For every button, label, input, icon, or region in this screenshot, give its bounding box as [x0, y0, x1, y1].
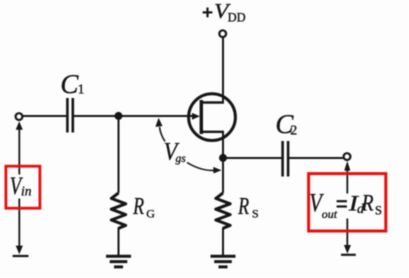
svg-text:gs: gs — [176, 153, 187, 165]
svg-text:S: S — [252, 206, 259, 220]
svg-text:S: S — [375, 204, 382, 218]
svg-text:DD: DD — [228, 11, 246, 25]
svg-text:out: out — [322, 207, 338, 221]
svg-text:1: 1 — [78, 83, 85, 98]
svg-text:R: R — [361, 190, 374, 216]
svg-text:G: G — [146, 207, 155, 221]
svg-text:R: R — [237, 193, 249, 220]
svg-text:in: in — [21, 184, 32, 199]
svg-text:R: R — [132, 193, 144, 220]
svg-text:2: 2 — [290, 124, 297, 139]
